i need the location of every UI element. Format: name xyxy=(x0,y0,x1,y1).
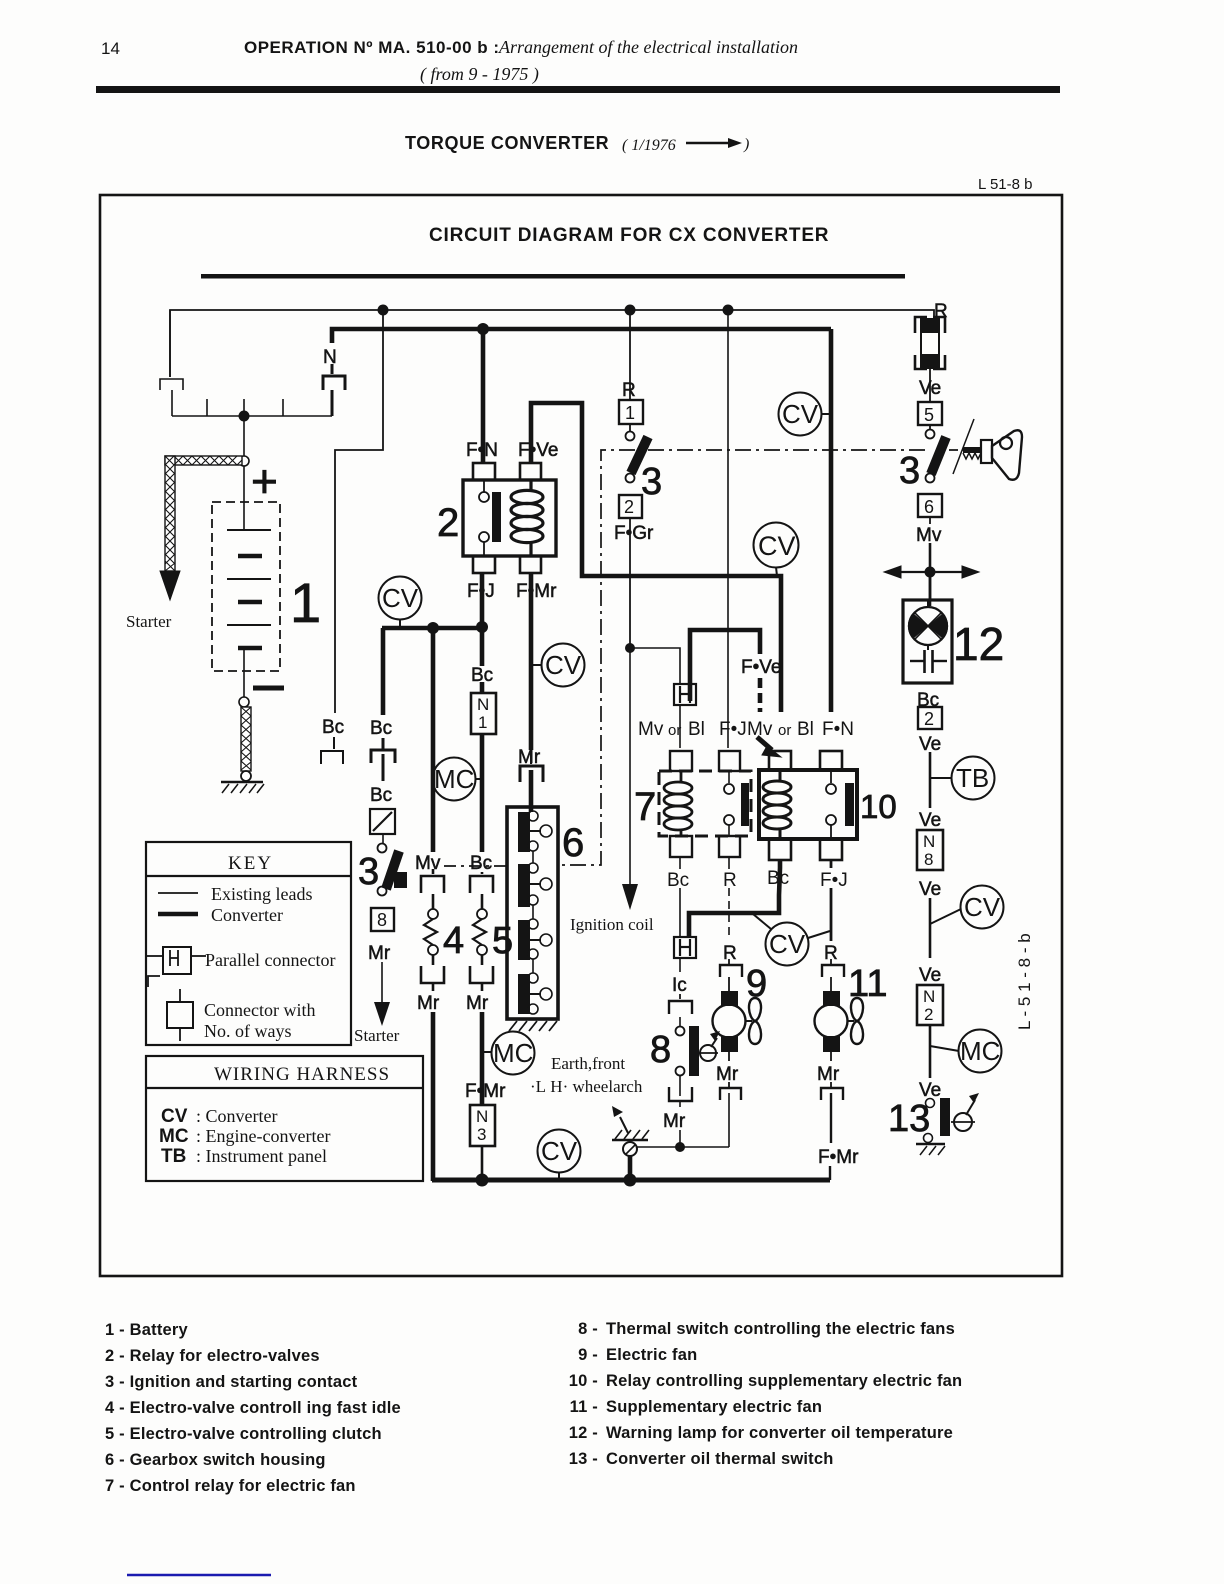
gearbox switch housing 6 xyxy=(507,807,584,1019)
svg-text:6: 6 xyxy=(924,497,934,517)
converter CV tag (on F.Ve path) xyxy=(754,523,799,577)
svg-text:Thermal switch controlling the: Thermal switch controlling the electric … xyxy=(606,1320,955,1338)
svg-text:( from 9 - 1975 ): ( from 9 - 1975 ) xyxy=(420,64,539,85)
instrument panel TB tag xyxy=(952,757,995,800)
svg-text:MC: MC xyxy=(493,1038,533,1068)
svg-text:: Instrument panel: : Instrument panel xyxy=(196,1146,327,1166)
svg-text:R: R xyxy=(723,870,737,891)
svg-text:Earth,front: Earth,front xyxy=(551,1054,625,1073)
svg-text:Ve: Ve xyxy=(919,965,941,986)
svg-text:Mv: Mv xyxy=(638,719,664,740)
node dot junction at F.J line xyxy=(476,621,488,633)
svg-text:N: N xyxy=(323,347,337,368)
node dot bus/switch3 branch xyxy=(625,305,636,316)
converter CV tag (distribution) xyxy=(379,577,422,629)
svg-text:13 -: 13 - xyxy=(569,1450,598,1468)
thick jumper over connector xyxy=(690,630,760,701)
svg-text:or: or xyxy=(778,722,791,739)
thick distribution bar xyxy=(382,621,488,634)
wire: thick converter bus xyxy=(332,329,831,343)
svg-text:3: 3 xyxy=(477,1125,486,1144)
svg-text:2: 2 xyxy=(437,501,459,545)
svg-text:CV: CV xyxy=(541,1136,578,1166)
labels below relays xyxy=(667,868,848,891)
svg-text:F•Mr: F•Mr xyxy=(465,1081,506,1102)
svg-text:Bc: Bc xyxy=(470,853,492,874)
svg-text:CV: CV xyxy=(769,929,806,959)
svg-text:Supplementary electric fan: Supplementary electric fan xyxy=(606,1398,822,1416)
svg-text:4: 4 xyxy=(443,920,464,962)
diagram frame xyxy=(100,195,1062,1276)
svg-text:N: N xyxy=(923,832,935,851)
svg-text:Bl: Bl xyxy=(688,719,705,740)
labels above relays xyxy=(638,719,854,740)
svg-text:8: 8 xyxy=(924,850,933,869)
svg-text:): ) xyxy=(743,136,749,153)
engine-converter MC tag (right column) xyxy=(930,1030,1002,1073)
svg-text:5: 5 xyxy=(924,405,934,425)
svg-text:Warning lamp for converter oil: Warning lamp for converter oil temperatu… xyxy=(606,1424,953,1442)
ignition coil feed xyxy=(570,643,680,934)
key: converter lead sample xyxy=(158,912,198,917)
svg-text:Parallel connector: Parallel connector xyxy=(205,950,335,970)
svg-text:7 - Control relay for electric: 7 - Control relay for electric fan xyxy=(105,1477,356,1495)
connector N2 xyxy=(917,965,943,1101)
ground for switch 13 xyxy=(916,1144,945,1155)
svg-text:or: or xyxy=(668,722,681,739)
svg-text:F•Gr: F•Gr xyxy=(614,523,654,544)
svg-text:TB: TB xyxy=(161,1146,186,1167)
svg-text:F•N: F•N xyxy=(822,719,854,740)
svg-text:1: 1 xyxy=(478,713,487,732)
battery earth cable (hatched) xyxy=(241,707,251,781)
svg-text:Ignition coil: Ignition coil xyxy=(570,915,654,934)
converter CV tag (earth bus) xyxy=(538,1130,581,1181)
fuse R xyxy=(915,301,948,401)
pointer arrow to relay 10 coil terminal xyxy=(757,737,781,757)
svg-text:2: 2 xyxy=(924,1005,933,1024)
svg-text:3: 3 xyxy=(899,450,920,492)
svg-text:13: 13 xyxy=(888,1098,930,1140)
wire down right column xyxy=(930,752,951,808)
svg-text:Mr: Mr xyxy=(368,943,391,964)
starting contact 3 (left) xyxy=(354,809,407,1045)
svg-text:Existing leads: Existing leads xyxy=(211,884,313,904)
wire F.Mr to gearbox housing xyxy=(518,747,543,812)
parallel connector (coil / relay7 feed) xyxy=(674,684,696,705)
ground under battery xyxy=(221,782,264,793)
svg-text:R: R xyxy=(622,380,636,401)
svg-text:Bc: Bc xyxy=(370,718,392,739)
electric fan 9 xyxy=(713,959,768,1147)
wire to ignition coil node xyxy=(629,518,631,648)
wire relay7 Bc to thermal switch 8 xyxy=(679,857,681,869)
svg-text:No. of ways: No. of ways xyxy=(204,1021,292,1041)
svg-text:+: + xyxy=(251,455,278,507)
thermal switch 8 xyxy=(650,958,720,1147)
svg-text:8: 8 xyxy=(650,1029,671,1071)
minus terminal xyxy=(253,686,284,691)
svg-text:1: 1 xyxy=(290,571,321,634)
relay 2 xyxy=(437,440,558,602)
svg-text:Electric fan: Electric fan xyxy=(606,1346,697,1364)
svg-text:2: 2 xyxy=(924,709,934,729)
ignition switch 3 (right, with key) xyxy=(899,402,946,600)
key: existing lead sample xyxy=(158,892,198,894)
svg-text:F•N: F•N xyxy=(466,440,498,461)
svg-text:Starter: Starter xyxy=(126,612,172,631)
svg-text:Mr: Mr xyxy=(716,1064,739,1085)
travel arrow xyxy=(884,566,979,578)
svg-text:Mv: Mv xyxy=(415,853,441,874)
svg-text:Starter: Starter xyxy=(354,1026,400,1045)
svg-text:Converter: Converter xyxy=(211,905,283,925)
svg-text:L 51-8 b: L 51-8 b xyxy=(978,176,1033,193)
wire bus to connector 1 xyxy=(629,310,631,400)
wire thick bus to F.N xyxy=(481,329,486,463)
node dot to Mv line xyxy=(427,622,439,634)
branch to parallel connector xyxy=(630,648,680,683)
svg-text:CV: CV xyxy=(964,892,1001,922)
svg-text:1: 1 xyxy=(625,403,635,423)
parallel connector left of battery strip xyxy=(160,379,183,390)
node dot bus/battery branch xyxy=(378,305,389,316)
svg-text:1 - Battery: 1 - Battery xyxy=(105,1321,189,1339)
footer mark xyxy=(127,1574,271,1577)
svg-text:2: 2 xyxy=(624,497,634,517)
converter CV tag (right column) xyxy=(930,886,1004,929)
svg-text:CV: CV xyxy=(782,399,819,429)
wire from bus to left connector xyxy=(169,310,171,377)
electro-valve 4 xyxy=(417,869,464,1014)
connector N1 xyxy=(471,693,496,734)
svg-text:F•J: F•J xyxy=(820,870,848,891)
converter CV tag (fan feed) xyxy=(753,914,830,966)
svg-text:5 - Electro-valve controlling: 5 - Electro-valve controlling clutch xyxy=(105,1425,382,1443)
svg-text:TORQUE CONVERTER: TORQUE CONVERTER xyxy=(405,133,609,153)
svg-text:OPERATION Nº MA. 510-00 b :: OPERATION Nº MA. 510-00 b : xyxy=(244,38,500,57)
svg-text:12: 12 xyxy=(953,618,1004,670)
svg-text:Mr: Mr xyxy=(663,1111,686,1132)
engine-converter MC tag (lower left) xyxy=(482,1032,535,1075)
parallel connector (switch 8 feed) xyxy=(674,937,696,958)
svg-text:7: 7 xyxy=(634,785,656,829)
svg-text:: Engine-converter: : Engine-converter xyxy=(196,1126,330,1146)
svg-text:: Converter: : Converter xyxy=(196,1106,277,1126)
svg-text:L - 5 1 - 8 - b: L - 5 1 - 8 - b xyxy=(1015,933,1034,1030)
svg-text:Ve: Ve xyxy=(919,734,941,755)
svg-text:N: N xyxy=(923,987,935,1006)
relay 10 xyxy=(759,751,897,860)
key symbol xyxy=(953,419,1022,480)
svg-text:Mr: Mr xyxy=(817,1064,840,1085)
ground under housing 6 xyxy=(509,1021,557,1031)
svg-text:6 - Gearbox switch housing: 6 - Gearbox switch housing xyxy=(105,1451,326,1469)
node dot strip/battery xyxy=(239,411,250,422)
svg-text:3: 3 xyxy=(641,461,662,503)
svg-text:8: 8 xyxy=(377,910,387,930)
control relay 7 xyxy=(634,751,751,857)
svg-text:N: N xyxy=(476,1107,488,1126)
wire strip to battery + xyxy=(243,416,245,456)
wire thick bus right leg xyxy=(829,329,834,712)
svg-text:14: 14 xyxy=(101,39,120,58)
svg-text:10 -: 10 - xyxy=(569,1372,598,1390)
svg-text:CV: CV xyxy=(545,650,582,680)
connector N bracket xyxy=(323,364,345,416)
wire F.Ve thick path to relay 10 xyxy=(531,403,781,712)
svg-text:F•Mr: F•Mr xyxy=(818,1147,859,1168)
svg-text:Bl: Bl xyxy=(797,719,814,740)
connector N3 xyxy=(465,1081,506,1146)
wire F.J thick path down xyxy=(480,573,485,666)
switch lever xyxy=(631,437,648,473)
svg-text:9 -: 9 - xyxy=(578,1346,598,1364)
warning lamp 12 xyxy=(903,600,1004,683)
svg-text:Converter oil thermal switch: Converter oil thermal switch xyxy=(606,1450,834,1468)
node dot bus/relay7 branch xyxy=(723,305,734,316)
svg-text:3: 3 xyxy=(358,851,379,893)
wire to lamp xyxy=(929,572,932,606)
svg-text:Bc: Bc xyxy=(322,717,344,738)
svg-text:Ve: Ve xyxy=(919,810,941,831)
wire relay10 F.J to fan 11 xyxy=(824,860,838,964)
wire relay7 R to fan 9 xyxy=(723,857,737,964)
svg-text:4 - Electro-valve controll ing: 4 - Electro-valve controll ing fast idle xyxy=(105,1399,401,1417)
svg-text:MC: MC xyxy=(960,1036,1000,1066)
thermal switch 13 xyxy=(888,1093,979,1143)
svg-text:Ic: Ic xyxy=(672,975,687,996)
connector Bc 2 xyxy=(917,690,942,755)
svg-text:F•Ve: F•Ve xyxy=(741,657,781,678)
wire Mv feed (electro-valve 4) xyxy=(431,628,436,852)
title underline bar xyxy=(201,274,905,279)
node dot xyxy=(625,643,635,653)
converter CV tag (bus right leg) xyxy=(779,393,832,436)
wire valve5 to earth bus xyxy=(480,1012,485,1105)
connector Bc (dead end) xyxy=(321,717,344,764)
electro-valve 5 xyxy=(466,872,513,1014)
engine-converter MC tag (valve feed) xyxy=(433,758,483,801)
svg-text:3 - Ignition and starting cont: 3 - Ignition and starting contact xyxy=(105,1373,358,1391)
svg-text:( 1/1976: ( 1/1976 xyxy=(622,137,676,154)
svg-text:Mr: Mr xyxy=(466,993,489,1014)
key: numbered connector sample xyxy=(167,989,193,1041)
svg-text:5: 5 xyxy=(492,920,513,962)
svg-text:KEY: KEY xyxy=(228,853,273,874)
converter CV tag (F.Mr) xyxy=(531,644,585,687)
starter terminal strip xyxy=(172,415,332,417)
svg-text:10: 10 xyxy=(860,788,897,825)
svg-text:6: 6 xyxy=(562,821,584,865)
svg-text:MC: MC xyxy=(434,764,474,794)
svg-text:N: N xyxy=(477,695,489,714)
wire to relay 7 coil xyxy=(679,705,681,748)
section title xyxy=(405,133,749,154)
wire valve4 to earth bus xyxy=(431,1012,436,1181)
wire bus to relay 7 F.J xyxy=(727,310,729,748)
svg-text:8 -: 8 - xyxy=(578,1320,598,1338)
connector pair Bc xyxy=(370,718,395,806)
node dot thick bus / relay2 F.N xyxy=(477,323,489,335)
svg-text:CV: CV xyxy=(758,531,796,561)
svg-text:Bc: Bc xyxy=(370,785,392,806)
svg-text:MC: MC xyxy=(159,1126,189,1147)
wire relay10 Bc jumper xyxy=(689,860,780,937)
svg-text:Bc: Bc xyxy=(667,870,689,891)
svg-text:Arrangement of the electrical: Arrangement of the electrical installati… xyxy=(498,37,798,57)
svg-text:Mv: Mv xyxy=(916,525,942,546)
svg-text:Connector with: Connector with xyxy=(204,1000,315,1020)
svg-text:Mr: Mr xyxy=(417,993,440,1014)
svg-text:F•Ve: F•Ve xyxy=(518,440,558,461)
wire F.Mr thick down xyxy=(529,573,534,750)
svg-text:CIRCUIT DIAGRAM FOR CX CONVERT: CIRCUIT DIAGRAM FOR CX CONVERTER xyxy=(429,225,829,246)
svg-text:Ve: Ve xyxy=(919,879,941,900)
earth collector link xyxy=(637,1146,729,1148)
supplementary electric fan 11 xyxy=(815,959,888,1180)
svg-text:CV: CV xyxy=(382,583,419,613)
svg-text:F•Mr: F•Mr xyxy=(516,581,557,602)
wire bus jog down to dead-end Bc xyxy=(335,310,383,713)
svg-text:·L H· wheelarch: ·L H· wheelarch xyxy=(530,1077,643,1096)
svg-text:12 -: 12 - xyxy=(569,1424,598,1442)
header rule xyxy=(96,86,1060,93)
node dot earth bus / N3 xyxy=(476,1174,489,1187)
svg-text:2 - Relay for electro-valves: 2 - Relay for electro-valves xyxy=(105,1347,320,1365)
key: parallel connector sample xyxy=(147,947,206,987)
earth return bus xyxy=(432,1174,830,1187)
svg-text:11 -: 11 - xyxy=(570,1398,598,1416)
svg-text:CV: CV xyxy=(161,1106,188,1127)
wire: thin top bus xyxy=(170,310,934,377)
svg-text:Relay controlling supplementar: Relay controlling supplementary electric… xyxy=(606,1372,962,1390)
battery 1 xyxy=(212,455,321,707)
starter cable (hatched) xyxy=(160,456,242,600)
connector N8 xyxy=(917,810,943,958)
svg-text:WIRING HARNESS: WIRING HARNESS xyxy=(214,1064,390,1085)
earth point, front LH wheelarch xyxy=(530,1054,729,1180)
wire Bc feed to starter contact xyxy=(381,628,386,715)
svg-text:TB: TB xyxy=(956,763,989,793)
svg-text:F•J: F•J xyxy=(719,719,747,740)
wire Bc feed (electro-valve 5) xyxy=(470,665,496,874)
